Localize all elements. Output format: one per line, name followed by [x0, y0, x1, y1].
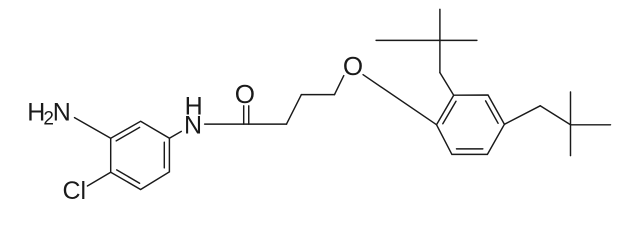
svg-text:N: N — [184, 111, 202, 139]
svg-text:O: O — [235, 79, 255, 109]
svg-text:Cl: Cl — [63, 177, 87, 205]
svg-text:N: N — [53, 98, 71, 126]
svg-text:O: O — [343, 51, 363, 81]
